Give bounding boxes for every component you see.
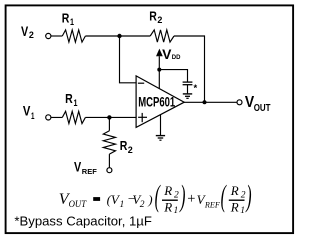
- minus sign (inverting input): [138, 82, 144, 84]
- svg-text:V: V: [74, 159, 82, 175]
- wire op-amp output to VOUT: [184, 101, 237, 103]
- node A junction (inverting input tap): [117, 34, 121, 38]
- svg-text:R: R: [163, 183, 172, 198]
- svg-text:2: 2: [174, 190, 179, 200]
- wire R1 to R2 (top): [85, 35, 150, 37]
- op-amp U1 MCP601: [136, 76, 184, 128]
- svg-text:R: R: [163, 199, 172, 214]
- wire V1 to R1: [51, 116, 62, 118]
- svg-text:): ): [147, 192, 152, 207]
- capacitor C1 bypass: [183, 81, 193, 83]
- wire R2 to feedback corner: [174, 35, 205, 37]
- wire V2 to R1: [51, 35, 62, 37]
- ground (op-amp): [156, 135, 165, 137]
- wire node A down to inverting input: [120, 36, 137, 83]
- resistor R1 (top): [62, 30, 85, 42]
- node VOUT terminal: [237, 100, 242, 105]
- svg-text:OUT: OUT: [254, 103, 271, 114]
- node V2 input terminal: [46, 33, 51, 38]
- svg-text:2: 2: [140, 200, 145, 210]
- node V1 input terminal: [46, 115, 51, 120]
- power VDD arrow: [157, 49, 163, 56]
- svg-text:V: V: [162, 47, 171, 62]
- svg-text:V: V: [23, 104, 31, 119]
- svg-text:*Bypass Capacitor, 1µF: *Bypass Capacitor, 1µF: [14, 214, 152, 228]
- svg-text:DD: DD: [172, 54, 181, 61]
- svg-text:REF: REF: [204, 199, 221, 209]
- svg-text:2: 2: [241, 190, 246, 200]
- node VREF terminal: [107, 168, 112, 173]
- svg-text:R: R: [230, 199, 239, 214]
- svg-text:R: R: [230, 183, 239, 198]
- svg-text:1: 1: [70, 17, 74, 27]
- svg-text:R: R: [120, 138, 128, 153]
- svg-text:2: 2: [29, 30, 34, 41]
- plus sign tick on noninverting input: [138, 116, 147, 118]
- wire R1 to noninverting input: [85, 116, 136, 118]
- wire R2 to VREF terminal: [108, 154, 110, 167]
- wire op-amp ground pin: [160, 115, 162, 136]
- svg-text:2: 2: [157, 15, 162, 25]
- node output junction: [203, 100, 207, 104]
- svg-text:R: R: [65, 91, 73, 106]
- svg-text:MCP601: MCP601: [138, 95, 175, 110]
- node B junction (V1/R2 tap): [107, 115, 111, 119]
- node VDD junction: [157, 68, 161, 72]
- svg-text:R: R: [149, 9, 157, 24]
- svg-text:): ): [245, 180, 252, 214]
- svg-text:1: 1: [74, 98, 78, 108]
- formula VOUT = (V1 - V2)(R2/R1) + VREF(R2/R1): [59, 180, 252, 216]
- svg-text:+: +: [187, 191, 195, 207]
- resistor R2 (feedback, top): [150, 30, 174, 42]
- svg-text:V: V: [21, 23, 29, 39]
- resistor R1 (bottom): [62, 111, 85, 123]
- svg-text:*: *: [194, 83, 198, 94]
- wire VDD down to op-amp power pin: [158, 56, 160, 89]
- svg-text:1: 1: [240, 206, 245, 216]
- wire feedback vertical down to output node: [204, 35, 206, 102]
- svg-text:1: 1: [31, 111, 35, 122]
- ground (bypass capacitor): [183, 93, 192, 95]
- svg-text:REF: REF: [82, 167, 97, 176]
- svg-text:OUT: OUT: [69, 200, 87, 210]
- svg-text:): ): [179, 180, 186, 214]
- svg-text:2: 2: [128, 145, 133, 155]
- resistor R2 (bottom, vertical): [103, 131, 115, 154]
- svg-text:R: R: [62, 10, 70, 25]
- wire node B down to R2: [108, 117, 110, 130]
- wire VDD junction to bypass capacitor: [159, 70, 187, 82]
- wire capacitor to ground: [187, 85, 189, 94]
- svg-text:1: 1: [120, 200, 125, 210]
- svg-text:1: 1: [174, 206, 179, 216]
